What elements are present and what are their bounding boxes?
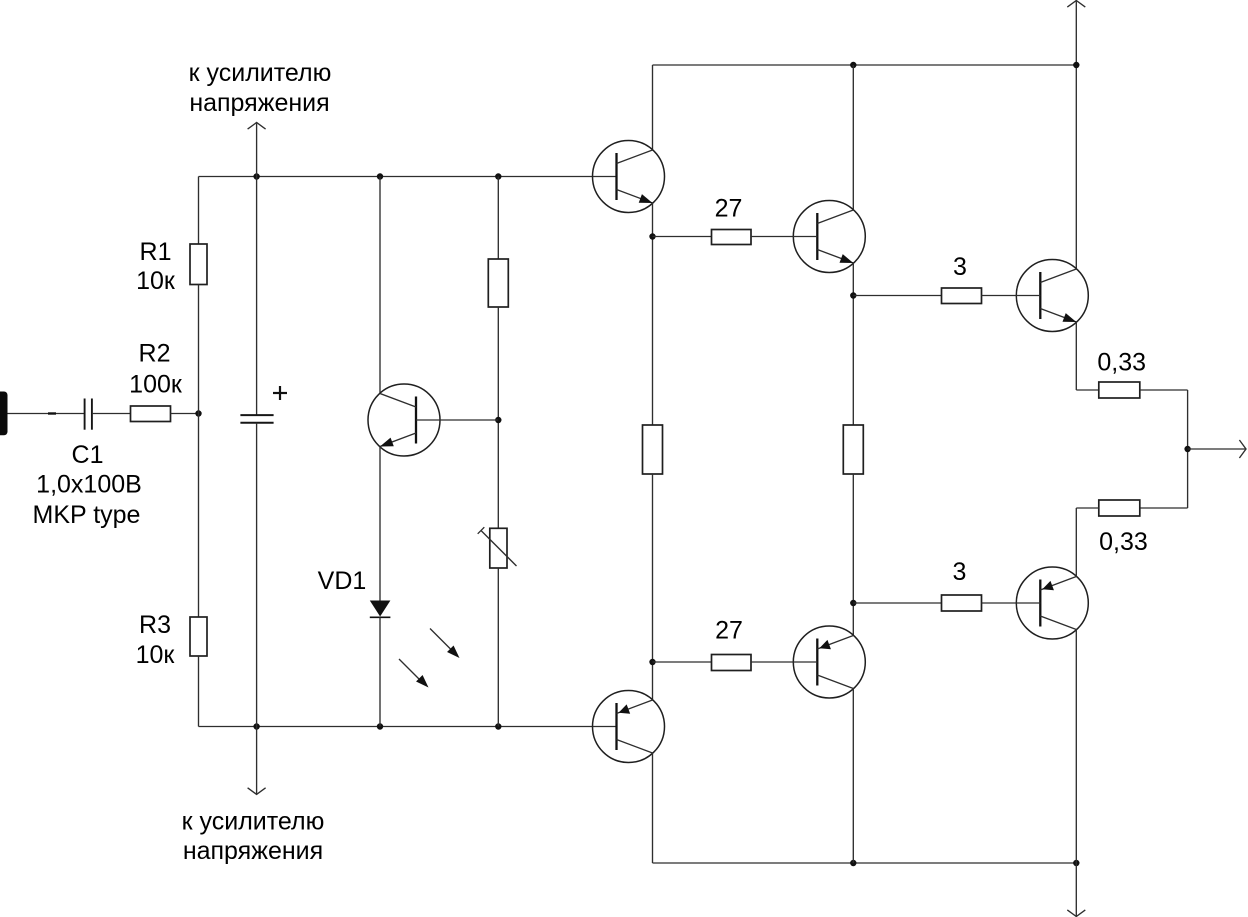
svg-text:VD1: VD1 [318, 567, 367, 595]
svg-text:напряжения: напряжения [189, 89, 329, 117]
svg-text:10к: 10к [136, 267, 176, 295]
svg-text:10к: 10к [136, 641, 176, 669]
svg-text:R3: R3 [139, 611, 171, 639]
svg-text:27: 27 [715, 617, 743, 645]
svg-text:C1: C1 [72, 441, 104, 469]
svg-text:0,33: 0,33 [1099, 528, 1148, 556]
svg-text:R2: R2 [139, 340, 171, 368]
svg-text:R1: R1 [140, 238, 172, 266]
svg-text:MKP type: MKP type [33, 501, 141, 529]
svg-text:3: 3 [953, 558, 967, 586]
svg-text:напряжения: напряжения [183, 837, 323, 865]
svg-text:к усилителю: к усилителю [182, 808, 325, 836]
svg-text:27: 27 [715, 194, 743, 222]
svg-text:3: 3 [953, 253, 967, 281]
svg-text:1,0x100В: 1,0x100В [36, 471, 142, 499]
svg-text:к усилителю: к усилителю [189, 59, 332, 87]
svg-text:100к: 100к [129, 370, 183, 398]
svg-text:0,33: 0,33 [1097, 349, 1146, 377]
